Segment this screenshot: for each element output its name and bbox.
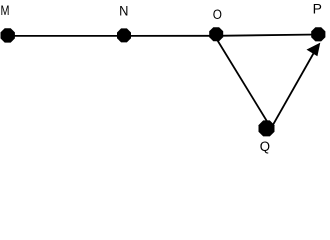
wire edge N-O <box>124 35 217 37</box>
svg-text:P: P <box>313 1 322 16</box>
svg-text:M: M <box>1 3 10 18</box>
svg-text:O: O <box>213 7 222 22</box>
node N <box>117 28 131 42</box>
node O <box>209 27 223 41</box>
svg-text:Q: Q <box>260 139 270 154</box>
node Q <box>259 120 275 136</box>
node M <box>1 28 15 42</box>
wire edge M-N <box>7 35 124 37</box>
svg-text:N: N <box>119 3 128 18</box>
arrowhead into P <box>307 43 321 57</box>
node P <box>311 27 325 41</box>
wire edge O-P <box>217 35 318 36</box>
wire edge Q-P shaft <box>271 50 316 129</box>
wire edge O-Q <box>214 34 272 128</box>
